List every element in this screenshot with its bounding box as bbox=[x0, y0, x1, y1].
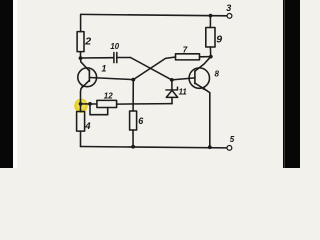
wire diode to R12 bbox=[117, 103, 172, 106]
resistor R9 bbox=[206, 16, 215, 57]
node B bbox=[170, 78, 174, 82]
wire bottom rail bbox=[81, 147, 228, 148]
terminal 3 bbox=[227, 14, 232, 19]
wire node A down to R6 bbox=[132, 80, 134, 111]
diode VD11 zener bbox=[166, 80, 178, 104]
svg-text:3: 3 bbox=[226, 3, 231, 13]
wire cap to diagonal bbox=[117, 57, 130, 59]
wire top rail bbox=[81, 14, 227, 15]
junction rail Q8 emitter bbox=[208, 145, 212, 149]
junction top rail bbox=[209, 14, 213, 18]
svg-text:6: 6 bbox=[138, 116, 144, 126]
wire to capacitor bbox=[81, 57, 114, 59]
capacitor C10 bbox=[114, 53, 117, 63]
highlight mark bbox=[74, 99, 88, 113]
junction emitter node bbox=[79, 102, 83, 106]
resistor R4 bbox=[77, 104, 85, 147]
svg-text:4: 4 bbox=[84, 121, 91, 132]
wire node B to Q8 base bbox=[172, 78, 195, 80]
wire Q8 emitter down bbox=[209, 93, 211, 148]
svg-text:8: 8 bbox=[215, 69, 220, 78]
transistor Q8 bbox=[189, 57, 211, 93]
junction rail R6 bbox=[131, 145, 135, 149]
resistor R12 bbox=[90, 100, 117, 114]
svg-text:11: 11 bbox=[179, 88, 187, 97]
node A bbox=[131, 78, 135, 82]
svg-text:1: 1 bbox=[101, 64, 106, 74]
resistor R7 bbox=[176, 54, 211, 60]
junction node collector R2 bbox=[79, 56, 83, 60]
svg-text:5: 5 bbox=[230, 135, 235, 144]
resistor R2 bbox=[77, 14, 84, 58]
wire Q1 base to node A bbox=[89, 78, 133, 80]
wire emitter node to R12 bbox=[81, 103, 97, 105]
junction R7 R9 collector bbox=[209, 55, 213, 59]
resistor R6 bbox=[130, 111, 137, 147]
wire diagonal cap to node B bbox=[131, 58, 172, 80]
svg-text:12: 12 bbox=[104, 92, 113, 101]
svg-text:10: 10 bbox=[110, 42, 119, 51]
svg-text:2: 2 bbox=[84, 35, 91, 47]
junction tap bbox=[88, 102, 92, 106]
transistor Q1 bbox=[78, 58, 97, 104]
wire diagonal node A to R7 bbox=[133, 57, 175, 80]
svg-text:7: 7 bbox=[183, 45, 188, 54]
svg-text:9: 9 bbox=[216, 34, 222, 46]
terminal 5 bbox=[227, 146, 232, 151]
